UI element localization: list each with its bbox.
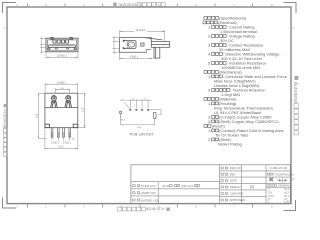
svg-text:Autodesk: Autodesk — [3, 109, 8, 129]
zone ticks top border — [28, 4, 253, 8]
pcb bottom dimension — [121, 114, 155, 125]
svg-text:1.: 1. — [208, 101, 211, 106]
corner trim mark top-right — [284, 3, 297, 14]
svg-text:1.: 1. — [208, 74, 211, 79]
svg-text:10.3: 10.3 — [59, 146, 64, 149]
pcb right oval pad — [153, 112, 156, 119]
title block tolerance note — [267, 173, 269, 175]
svg-text:PCB LAYOUT: PCB LAYOUT — [130, 132, 155, 136]
svg-text::(ITEM NO): :(ITEM NO) — [140, 184, 155, 188]
svg-text:13.9±0.1: 13.9±0.1 — [57, 53, 68, 57]
top view right dim arrowheads — [84, 93, 85, 128]
svg-text:5.: 5. — [208, 60, 211, 65]
svg-text:(Shell) Copper Alloy C2680/SPC: (Shell) Copper Alloy C2680/SPCC — [219, 119, 279, 124]
side view latch slot — [124, 41, 137, 49]
front view dimension arrowheads — [46, 57, 78, 58]
side view C mark — [141, 43, 144, 46]
title block part no label — [133, 192, 136, 194]
side view bottom dimension — [120, 53, 153, 60]
top view pin 1 — [51, 128, 53, 138]
svg-text:4.: 4. — [208, 51, 211, 56]
top view bottom wide dimension — [45, 128, 78, 150]
svg-text::(PART NO): :(PART NO) — [140, 191, 156, 195]
svg-text:Nickel Plating: Nickel Plating — [218, 141, 242, 146]
front view left dimension bracket — [40, 37, 46, 54]
svg-text:2.: 2. — [208, 87, 211, 92]
svg-text:Autodesk: Autodesk — [118, 2, 138, 7]
side view top dim arrowheads — [120, 31, 165, 32]
pcb pad 3 — [141, 109, 143, 111]
top view latch spring left — [51, 96, 58, 108]
pcb pad dimension lines — [127, 99, 152, 108]
pcb leader line — [125, 103, 131, 110]
svg-text:A: A — [292, 26, 294, 30]
front view bottom dimension — [46, 53, 78, 59]
svg-text:: DESIGN: : DESIGN — [228, 185, 240, 189]
pcb bottom dim arrowhead — [121, 124, 123, 125]
svg-text:11.5: 11.5 — [35, 113, 38, 118]
corner trim mark bottom-left — [3, 198, 17, 209]
title block date label — [221, 180, 223, 182]
zone ticks bottom border — [28, 204, 253, 208]
svg-text:: REV: : REV — [228, 172, 235, 176]
front view outer shell — [46, 38, 78, 52]
pcb pad 4 — [147, 109, 149, 111]
third angle projection symbol — [269, 177, 286, 182]
svg-text:4.5±0.1: 4.5±0.1 — [130, 55, 139, 59]
svg-text:3.: 3. — [208, 42, 211, 47]
svg-text:Autodesk: Autodesk — [145, 206, 165, 211]
front view mount holes — [48, 48, 50, 50]
svg-text:1.: 1. — [208, 128, 211, 133]
svg-text:: DATE: : DATE — [228, 179, 237, 183]
watermark top: Autodesk educational stamp — [113, 2, 165, 7]
corner trim mark top-left — [3, 3, 17, 14]
spec text block — [203, 15, 288, 146]
title block approved label — [221, 199, 223, 201]
svg-text:Y-USB-A07-96: Y-USB-A07-96 — [269, 166, 288, 170]
corner trim mark bottom-right — [284, 200, 296, 211]
zone numbers top — [16, 3, 273, 7]
top view left dim arrowheads — [38, 93, 39, 138]
svg-text:1.: 1. — [208, 24, 211, 29]
top view pin dimension marks — [52, 132, 70, 141]
side view left bracket — [113, 36, 120, 54]
top view pin 3 — [63, 128, 65, 138]
svg-text:11.3: 11.3 — [82, 107, 85, 112]
title block item no label — [133, 185, 136, 187]
svg-text:2.0±0.1: 2.0±0.1 — [51, 142, 60, 145]
svg-text:2.: 2. — [208, 33, 211, 38]
title block model no label — [133, 199, 136, 201]
drawing border frame — [7, 7, 291, 204]
top view corner notch left — [45, 124, 50, 128]
title block design value — [251, 186, 254, 188]
side view bottom dim arrowhead — [120, 58, 123, 59]
front view tongue — [48, 45, 75, 48]
svg-text:±.05: ±.05 — [284, 201, 289, 204]
title block rev label — [221, 173, 223, 175]
top view upper dimension lines — [45, 83, 78, 93]
svg-text:: CHECKED: : CHECKED — [228, 192, 243, 196]
title block right section grid — [220, 165, 291, 204]
top view bottom dim arrowheads — [45, 148, 78, 149]
title block checked label — [221, 193, 223, 195]
top view corner notch right — [73, 124, 78, 128]
zone numbers bottom — [16, 205, 273, 209]
svg-text:B: B — [292, 177, 294, 181]
top view inner horizontal line — [45, 107, 78, 109]
watermark bottom (rotated 180) — [118, 206, 170, 211]
tolerance mini table — [266, 187, 290, 189]
pcb right connector line — [149, 110, 161, 115]
front view contact slots — [51, 37, 72, 43]
title block outer — [131, 165, 290, 204]
watermark left (rotated -90) — [3, 104, 8, 156]
svg-text:A: A — [3, 26, 5, 30]
svg-text:(TOLERANCE)±: (TOLERANCE)± — [273, 172, 294, 176]
top view upper dim arrowheads — [45, 84, 78, 91]
svg-text:Ø2.3: Ø2.3 — [120, 120, 126, 122]
title block designed label — [221, 186, 223, 188]
pcb pad 1 — [129, 109, 131, 111]
svg-text:: DWG NO: : DWG NO — [228, 166, 242, 170]
top view body — [45, 93, 78, 128]
side view top dimension — [120, 30, 165, 41]
svg-text:2.: 2. — [208, 137, 211, 142]
title block left section lines — [131, 165, 220, 204]
svg-text:14.0±0.2: 14.0±0.2 — [135, 28, 146, 32]
top view pin 4 — [69, 128, 71, 138]
svg-text:AF 90: AF 90 — [162, 184, 170, 188]
side view right tab — [145, 38, 170, 48]
svg-text:2.0±0.1: 2.0±0.1 — [63, 142, 72, 145]
svg-text:DIP 14.0: DIP 14.0 — [182, 184, 194, 188]
side view bottom-right notch — [146, 50, 151, 53]
pcb pad 2 — [135, 109, 137, 111]
watermark right (rotated 90) — [292, 76, 298, 135]
svg-text:13.9±0.1: 13.9±0.1 — [57, 82, 67, 85]
svg-text::(MODEL NO): :(MODEL NO) — [140, 198, 159, 202]
side view body — [120, 38, 152, 53]
side view leg — [154, 47, 160, 58]
svg-text:Autodesk: Autodesk — [292, 82, 298, 104]
pcb left hole leader — [120, 114, 122, 118]
top view pin 2 — [58, 128, 60, 138]
front view bottom notches — [55, 47, 69, 49]
pcb left hole — [119, 111, 121, 113]
side view latch serifs — [123, 40, 126, 49]
svg-text:: APPROVED: : APPROVED — [228, 198, 245, 202]
top view left height dimension — [38, 93, 46, 138]
title block dwg no label — [221, 167, 223, 169]
svg-text:4-Ø1.0: 4-Ø1.0 — [120, 100, 127, 102]
top view latch spring right — [65, 96, 72, 108]
top view right dimension — [78, 93, 85, 128]
